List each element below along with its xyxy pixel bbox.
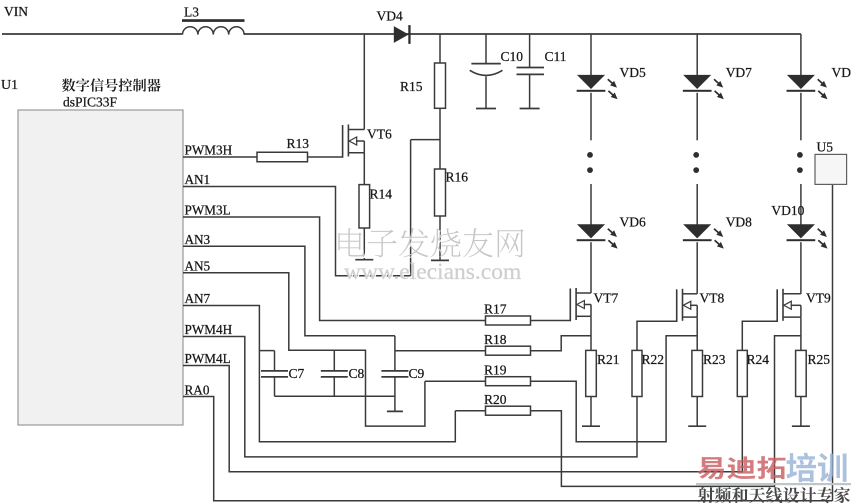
- svg-text:R25: R25: [808, 352, 831, 367]
- wire R18 to VT7 source: [531, 336, 592, 351]
- svg-text:VD4: VD4: [377, 9, 403, 24]
- wire R21 bottom lead: [590, 397, 592, 427]
- transistor VT8: [676, 289, 678, 322]
- wire VT9 source to R25: [800, 317, 802, 350]
- resistor R13: [257, 152, 308, 162]
- wire C7 top stub: [259, 350, 274, 352]
- resistor R15: [435, 63, 446, 108]
- svg-text:VT9: VT9: [806, 291, 831, 306]
- capacitor C9: [381, 370, 408, 372]
- svg-text:AN3: AN3: [185, 232, 211, 247]
- wire R25 bottom lead: [800, 397, 802, 427]
- wire R15-R16 link: [439, 108, 441, 169]
- wire LED string 1 to drain: [590, 242, 592, 293]
- svg-text:C7: C7: [289, 366, 305, 381]
- svg-text:R15: R15: [400, 79, 423, 94]
- wire top rail: [244, 33, 801, 35]
- wire AN3: [183, 246, 395, 335]
- capacitor C7: [274, 351, 276, 371]
- wire LED string 3 top: [800, 34, 802, 75]
- wire AN7: [183, 306, 455, 442]
- wire C9 top stem: [394, 336, 396, 371]
- svg-text:PWM3L: PWM3L: [185, 203, 231, 218]
- svg-text:R21: R21: [597, 352, 620, 367]
- svg-text:C11: C11: [545, 49, 567, 64]
- wire PWM4H: [183, 337, 637, 457]
- wire LED string 3 mid lower: [800, 184, 802, 225]
- wire R13 to VT6 gate: [308, 156, 343, 158]
- resistor R23: [692, 350, 703, 396]
- capacitor C8: [333, 350, 335, 370]
- transistor VT6: [342, 125, 344, 158]
- svg-text:VD6: VD6: [620, 215, 646, 230]
- ground under R14: [355, 259, 373, 261]
- wire LED string 1 top: [590, 34, 592, 75]
- resistor R19 left lead: [425, 380, 486, 382]
- ground under R25: [792, 425, 810, 427]
- IC U5 box: [815, 154, 847, 184]
- wire LED string 2 top: [696, 34, 698, 75]
- svg-text:VT7: VT7: [594, 291, 619, 306]
- wire R14 bottom lead: [363, 228, 365, 260]
- wire C9 junction to R18: [395, 350, 486, 352]
- node string 2 ellipsis dots: [693, 152, 699, 158]
- svg-text:VT6: VT6: [367, 127, 392, 142]
- wire R22 to VT8 gate: [637, 321, 677, 350]
- diode VD4: [394, 26, 409, 43]
- wire PWM3H to R13: [183, 156, 257, 158]
- wire R19 to VT8 source: [531, 336, 698, 442]
- resistor R17: [486, 316, 531, 325]
- wire VT8 source to R23: [696, 317, 698, 350]
- LED VD5: [577, 75, 605, 89]
- wire R16 bottom lead: [439, 216, 441, 260]
- resistor R18: [486, 346, 531, 355]
- svg-text:U5: U5: [817, 140, 834, 155]
- wire R24 to VT9 gate: [742, 321, 777, 350]
- svg-text:VD10: VD10: [771, 203, 804, 218]
- svg-text:R17: R17: [484, 302, 507, 317]
- wire AN5: [183, 273, 425, 426]
- svg-text:R19: R19: [484, 363, 507, 378]
- svg-text:R13: R13: [287, 136, 310, 151]
- resistor R20: [486, 406, 531, 415]
- svg-text:C8: C8: [349, 366, 365, 381]
- logo 易迪拓: [697, 457, 724, 479]
- svg-text:PWM4L: PWM4L: [185, 351, 231, 366]
- svg-text:RA0: RA0: [185, 383, 210, 398]
- svg-text:AN5: AN5: [185, 259, 211, 274]
- wire VT6 source to R14: [363, 153, 365, 185]
- ground under C9: [387, 410, 403, 412]
- resistor R19: [486, 377, 531, 386]
- svg-text:VT8: VT8: [700, 291, 725, 306]
- LED VD6: [577, 224, 605, 238]
- svg-text:VD7: VD7: [726, 65, 752, 80]
- ground under C10: [476, 108, 496, 110]
- svg-text:AN7: AN7: [185, 291, 211, 306]
- LED VD9: [787, 75, 815, 89]
- transistor VT7: [569, 289, 571, 322]
- logo tagline 射频和天线设计专家: [698, 487, 714, 503]
- wire R20 to VT9 source: [531, 336, 801, 487]
- svg-text:PWM4H: PWM4H: [185, 322, 233, 337]
- svg-text:R20: R20: [484, 392, 507, 407]
- wire PWM4L: [183, 366, 742, 472]
- LED VD7: [683, 75, 711, 89]
- wire LED string 3 to drain: [800, 242, 802, 294]
- wire R23 bottom lead: [696, 397, 698, 427]
- resistor R24: [737, 350, 747, 396]
- svg-text:C10: C10: [501, 49, 524, 64]
- svg-text:AN1: AN1: [185, 172, 211, 187]
- wire LED string 3 mid upper: [800, 93, 802, 141]
- wire PWM3L: [183, 217, 486, 321]
- resistor R22: [632, 350, 642, 396]
- logo 培训: [786, 453, 816, 483]
- wire AN1: [183, 187, 411, 276]
- wire VT6 drain to rail: [363, 34, 365, 130]
- svg-text:C9: C9: [409, 366, 425, 381]
- wire capacitor bottom bus: [275, 395, 395, 397]
- svg-text:VD8: VD8: [726, 215, 752, 230]
- ground under R23: [688, 425, 706, 427]
- resistor R20 left lead: [455, 410, 485, 412]
- svg-text:R16: R16: [446, 170, 469, 185]
- wire VIN input rail: [2, 33, 182, 35]
- transistor VT9: [776, 289, 778, 322]
- svg-text:R18: R18: [484, 332, 507, 347]
- wire LED string 2 to drain: [696, 242, 698, 294]
- resistor R16: [435, 169, 446, 216]
- resistor R14: [359, 185, 370, 228]
- wire LED string 1 mid lower: [590, 184, 592, 225]
- svg-text:PWM3H: PWM3H: [185, 143, 233, 158]
- wire LED string 2 mid lower: [696, 184, 698, 225]
- svg-text:www.elecians.com: www.elecians.com: [344, 259, 521, 285]
- wire R17 to VT7 gate: [531, 320, 571, 322]
- svg-text:R23: R23: [703, 352, 726, 367]
- inductor L3 coil: [183, 27, 245, 35]
- svg-text:R22: R22: [642, 352, 665, 367]
- capacitor C10: [485, 34, 487, 63]
- svg-text:VIN: VIN: [4, 4, 28, 19]
- inductor L3 core bar: [182, 19, 245, 22]
- svg-text:L3: L3: [184, 5, 199, 20]
- capacitor C11: [529, 34, 531, 67]
- svg-text:R14: R14: [370, 187, 393, 202]
- logo underline: [696, 483, 851, 485]
- ground under R16: [431, 259, 449, 261]
- resistor R25: [796, 350, 807, 396]
- svg-text:VD9: VD9: [832, 65, 851, 80]
- svg-text:R24: R24: [747, 352, 770, 367]
- wire RA0: [183, 397, 833, 501]
- node string 3 ellipsis dots: [797, 152, 803, 158]
- wire LED string 2 mid upper: [696, 93, 698, 141]
- svg-text:dsPIC33F: dsPIC33F: [63, 95, 118, 110]
- watermark 电子发烧友网: [340, 230, 367, 258]
- ground under C11: [520, 108, 540, 110]
- wire R15 top lead: [439, 34, 441, 63]
- ground under R21: [582, 425, 600, 427]
- wire U5 to RA0: [832, 184, 834, 500]
- IC U1 box: [18, 110, 183, 425]
- wire LED string 1 mid upper: [590, 93, 592, 141]
- svg-text:VD5: VD5: [620, 65, 646, 80]
- wire VT7 source to R21: [590, 317, 592, 351]
- svg-text:U1: U1: [1, 78, 18, 93]
- LED VD8: [683, 224, 711, 238]
- LED VD10: [787, 224, 815, 238]
- node string 1 ellipsis dots: [587, 152, 593, 158]
- IC U1 title 数字信号控制器: [62, 78, 76, 91]
- resistor R21: [586, 350, 597, 396]
- node AN1 feedback branch: [411, 139, 440, 141]
